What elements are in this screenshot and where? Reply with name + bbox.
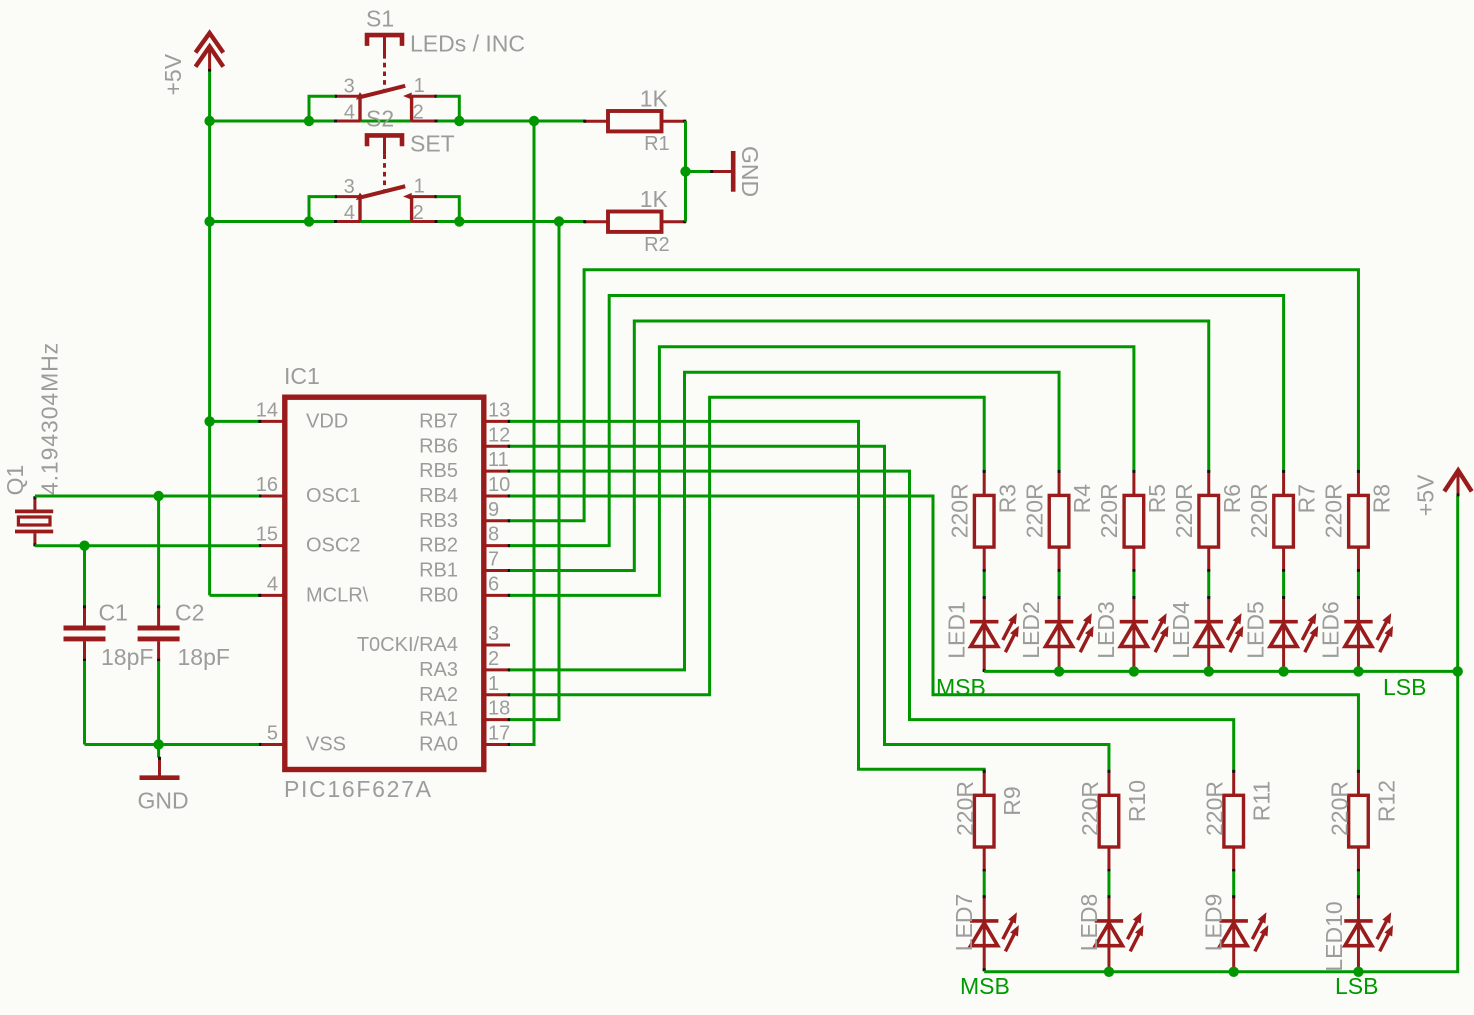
wire S2 pins 1-2 bracket xyxy=(437,197,460,222)
IC1 pin 7 RB1 lead xyxy=(484,569,510,572)
resistor R2 1K xyxy=(583,212,686,232)
wire net RA3 to R4 xyxy=(510,372,1059,670)
svg-text:2: 2 xyxy=(488,648,499,670)
junction bottom LED bus / x=1233.7 xyxy=(1229,967,1239,977)
svg-text:3: 3 xyxy=(488,623,499,645)
S2 pin 1 lead xyxy=(412,195,437,198)
wire S1 pins 3-4 bracket xyxy=(309,96,335,121)
LED LED8 xyxy=(1095,895,1144,971)
IC1 pin 1 RA2 lead xyxy=(484,693,510,696)
LED LED3 xyxy=(1120,596,1169,672)
S1 pin 1 lead xyxy=(412,95,437,98)
switch S2 (SET) xyxy=(334,135,438,223)
S1 pin 4 lead xyxy=(335,120,360,123)
wire net RA2 to R3 xyxy=(510,397,984,694)
IC1 pin 13 RB7 lead xyxy=(484,420,510,423)
wire R9 to LED7 xyxy=(983,871,986,896)
resistor R4 220R xyxy=(1049,470,1069,572)
svg-text:RB5: RB5 xyxy=(419,460,458,482)
svg-text:4: 4 xyxy=(344,202,355,224)
svg-text:18: 18 xyxy=(488,698,510,720)
svg-text:OSC2: OSC2 xyxy=(306,535,360,557)
svg-text:2: 2 xyxy=(413,101,424,123)
resistor R8 220R xyxy=(1349,470,1369,572)
IC1 pin 2 RA3 lead xyxy=(484,668,510,671)
svg-text:MSB: MSB xyxy=(936,674,986,700)
svg-text:7: 7 xyxy=(488,549,499,571)
svg-text:LSB: LSB xyxy=(1335,973,1378,999)
wire R3 to LED1 xyxy=(983,572,986,597)
svg-text:18pF: 18pF xyxy=(178,644,230,670)
svg-text:R10: R10 xyxy=(1124,780,1150,822)
svg-text:4: 4 xyxy=(267,573,278,595)
capacitor C1 18pF xyxy=(64,605,106,661)
IC1 pin 10 RB4 lead xyxy=(484,494,510,497)
wire S1 net down to IC pin 17 RA0 xyxy=(510,121,534,745)
supply +5V (right) xyxy=(1444,470,1471,496)
svg-text:LED3: LED3 xyxy=(1093,601,1119,659)
wire R12 to LED10 xyxy=(1357,871,1360,896)
IC1 pin 5 VSS lead xyxy=(259,743,285,746)
svg-text:MCLR\: MCLR\ xyxy=(306,584,369,606)
svg-text:3: 3 xyxy=(344,76,355,98)
wire net RB6 to R10 xyxy=(510,446,1109,770)
svg-text:14: 14 xyxy=(256,399,278,421)
resistor R12 220R xyxy=(1349,770,1369,872)
svg-text:PIC16F627A: PIC16F627A xyxy=(284,776,433,802)
svg-text:LED6: LED6 xyxy=(1318,601,1344,659)
IC1 pin 15 OSC2 lead xyxy=(259,544,285,547)
switch S1 (LEDs / INC) xyxy=(334,35,438,122)
IC1 pin 3 T0CKI/RA4 lead xyxy=(484,644,510,647)
svg-text:LED8: LED8 xyxy=(1076,894,1102,952)
resistor R7 220R xyxy=(1274,470,1294,572)
capacitor C2 18pF xyxy=(138,605,180,661)
junction R1R2/GND stub xyxy=(680,166,690,176)
wire net RB7 to R9 xyxy=(510,421,984,770)
wire net RB5 to R11 xyxy=(510,471,1234,770)
wire net OSC1 (crystal to pin 16) xyxy=(35,495,259,498)
IC1 pin 9 RB3 lead xyxy=(484,519,510,522)
svg-text:RA0: RA0 xyxy=(419,733,458,755)
svg-text:4: 4 xyxy=(344,101,355,123)
wire OSC2 down to C1 xyxy=(83,546,86,606)
junction LED bus / x=1059.05 xyxy=(1054,666,1064,676)
wire R11 to LED9 xyxy=(1232,871,1235,896)
svg-text:GND: GND xyxy=(137,788,188,814)
wire net RB3 to R8 xyxy=(510,270,1358,521)
svg-text:13: 13 xyxy=(488,399,510,421)
svg-text:16: 16 xyxy=(256,474,278,496)
junction LED bus / x=1208.75 xyxy=(1204,666,1214,676)
svg-text:RB4: RB4 xyxy=(419,485,458,507)
wire S2 net down to IC pin 18 RA1 xyxy=(510,222,559,720)
svg-text:220R: 220R xyxy=(1096,483,1122,538)
wire top LED bus (MSB..LSB to +5V) xyxy=(984,496,1457,672)
junction S2 pin4 / row xyxy=(304,216,314,226)
wire +5V to IC pin 4 MCLR xyxy=(210,594,259,597)
junction GND row / GND symbol xyxy=(153,739,163,749)
wire OSC1 down to C2 xyxy=(157,496,160,606)
svg-text:9: 9 xyxy=(488,499,499,521)
junction LED bus / x=1283.6 xyxy=(1278,666,1288,676)
IC1 pin 11 RB5 lead xyxy=(484,470,510,473)
junction S2 row / drop to RA1 xyxy=(554,216,564,226)
junction +5V / VDD xyxy=(204,416,214,426)
svg-text:R3: R3 xyxy=(994,484,1020,513)
svg-text:3: 3 xyxy=(344,176,355,198)
IC1 pin 16 OSC1 lead xyxy=(259,494,285,497)
wire R8 to LED6 xyxy=(1357,572,1360,597)
svg-text:220R: 220R xyxy=(947,483,973,538)
junction S2 pin2 / row xyxy=(454,216,464,226)
svg-text:10: 10 xyxy=(488,474,510,496)
svg-text:R12: R12 xyxy=(1373,780,1399,822)
IC1 pin 12 RB6 lead xyxy=(484,445,510,448)
svg-text:R11: R11 xyxy=(1249,781,1275,822)
svg-text:18pF: 18pF xyxy=(101,644,153,670)
svg-text:12: 12 xyxy=(488,424,510,446)
wire +5V vertical from supply to MCLR row xyxy=(208,72,211,596)
IC U1 PIC16F627A (IC1) body xyxy=(285,397,484,769)
junction +5V / S2 row xyxy=(204,216,214,226)
svg-text:RB7: RB7 xyxy=(419,410,458,432)
resistor R5 220R xyxy=(1124,470,1144,572)
svg-text:R8: R8 xyxy=(1369,484,1395,513)
svg-text:T0CKI/RA4: T0CKI/RA4 xyxy=(357,634,458,656)
LED LED7 xyxy=(970,895,1019,971)
wire S2 pins 3-4 bracket xyxy=(309,197,335,222)
wire net S2-row (+5V to S2/R2) xyxy=(210,220,585,223)
svg-text:LED5: LED5 xyxy=(1243,601,1269,659)
svg-text:R2: R2 xyxy=(644,234,670,256)
svg-text:1: 1 xyxy=(414,75,425,97)
wire +5V to IC pin 14 VDD xyxy=(210,420,259,423)
svg-text:C2: C2 xyxy=(175,600,204,626)
svg-text:R5: R5 xyxy=(1144,484,1170,513)
S2 pin 2 lead xyxy=(412,220,437,223)
svg-text:Q1: Q1 xyxy=(2,465,28,496)
svg-text:+5V: +5V xyxy=(160,53,186,95)
wire S1 pins 1-2 bracket xyxy=(437,96,460,121)
svg-text:RA1: RA1 xyxy=(419,709,458,731)
wire down to GND symbol xyxy=(157,745,160,758)
svg-text:MSB: MSB xyxy=(960,973,1010,999)
svg-text:S2: S2 xyxy=(366,105,394,131)
wire R5 to LED3 xyxy=(1132,572,1135,597)
wire C1 to GND row xyxy=(83,661,86,745)
LED LED10 xyxy=(1344,895,1393,971)
svg-text:LED9: LED9 xyxy=(1201,894,1227,952)
IC1 pin 17 RA0 lead xyxy=(484,743,510,746)
svg-text:5: 5 xyxy=(267,722,278,744)
IC1 pin 6 RB0 lead xyxy=(484,594,510,597)
junction bottom LED bus / x=1108.95 xyxy=(1104,967,1114,977)
junction LED bus / x=1133.9 xyxy=(1129,666,1139,676)
svg-text:+5V: +5V xyxy=(1413,474,1439,516)
svg-text:RB1: RB1 xyxy=(419,560,458,582)
wire net RB2 to R7 xyxy=(510,296,1284,546)
svg-text:IC1: IC1 xyxy=(284,363,320,389)
svg-text:1: 1 xyxy=(488,673,499,695)
svg-text:R7: R7 xyxy=(1294,484,1320,513)
junction S1 pin4 / row xyxy=(304,116,314,126)
svg-text:220R: 220R xyxy=(1171,483,1197,538)
S2 pin 3 lead xyxy=(335,195,360,198)
svg-text:220R: 220R xyxy=(1326,781,1352,836)
svg-text:1: 1 xyxy=(414,176,425,198)
svg-text:RA3: RA3 xyxy=(419,659,458,681)
svg-text:VDD: VDD xyxy=(306,410,348,432)
junction S1 pin2 / row xyxy=(454,116,464,126)
wire net RB4 to R12 xyxy=(510,496,1358,771)
junction top LED bus / +5V riser xyxy=(1453,666,1463,676)
svg-text:220R: 220R xyxy=(1021,483,1047,538)
IC1 pin 14 VDD lead xyxy=(259,420,285,423)
LED LED4 xyxy=(1195,596,1244,672)
resistor R3 220R xyxy=(974,470,994,572)
svg-text:1K: 1K xyxy=(640,186,669,212)
S1 pin 2 lead xyxy=(412,120,437,123)
svg-text:LSB: LSB xyxy=(1383,674,1426,700)
wire net RB0 to R5 xyxy=(510,347,1134,596)
svg-text:4.194304MHz: 4.194304MHz xyxy=(37,342,63,495)
ground GND (bottom left) xyxy=(140,757,180,778)
IC1 pin 8 RB2 lead xyxy=(484,544,510,547)
ground GND (right of R1/R2) xyxy=(710,151,733,192)
supply +5V (top left) xyxy=(196,33,224,72)
svg-text:RB0: RB0 xyxy=(419,584,458,606)
crystal Q1 4.194304MHz xyxy=(15,496,53,546)
wire R10 to LED8 xyxy=(1107,871,1110,896)
svg-text:220R: 220R xyxy=(1077,781,1103,836)
svg-text:LEDs / INC: LEDs / INC xyxy=(410,31,525,57)
svg-text:LED2: LED2 xyxy=(1018,601,1044,659)
resistor R9 220R xyxy=(974,770,994,872)
svg-text:2: 2 xyxy=(413,202,424,224)
wire R6 to LED4 xyxy=(1207,572,1210,597)
junction OSC2/C1 xyxy=(79,541,89,551)
LED LED2 xyxy=(1045,596,1094,672)
wire C2 to GND row xyxy=(157,661,160,745)
junction LED bus / x=1358.45 xyxy=(1353,666,1363,676)
svg-text:R1: R1 xyxy=(644,133,670,155)
svg-text:LED10: LED10 xyxy=(1321,901,1347,971)
IC1 pin 4 MCLR\ lead xyxy=(259,594,285,597)
svg-text:17: 17 xyxy=(488,722,510,744)
LED LED5 xyxy=(1269,596,1318,672)
svg-text:220R: 220R xyxy=(1321,483,1347,538)
svg-text:1K: 1K xyxy=(640,86,669,112)
wire R7 to LED5 xyxy=(1282,572,1285,597)
svg-text:RB2: RB2 xyxy=(419,535,458,557)
svg-text:220R: 220R xyxy=(1246,483,1272,538)
resistor R6 220R xyxy=(1199,470,1219,572)
svg-text:VSS: VSS xyxy=(306,733,346,755)
svg-text:15: 15 xyxy=(256,524,278,546)
junction S1 row / drop to RA0 xyxy=(529,116,539,126)
S2 pin 4 lead xyxy=(335,220,360,223)
svg-text:SET: SET xyxy=(410,131,455,157)
svg-text:R4: R4 xyxy=(1069,484,1095,514)
IC1 pin 18 RA1 lead xyxy=(484,718,510,721)
wire to GND symbol (right) xyxy=(686,170,712,173)
LED LED9 xyxy=(1220,895,1269,971)
svg-text:LED4: LED4 xyxy=(1168,601,1194,659)
svg-text:RB3: RB3 xyxy=(419,510,458,532)
svg-text:R9: R9 xyxy=(999,786,1025,815)
wire net OSC2 (crystal to pin 15) xyxy=(35,544,259,547)
svg-text:6: 6 xyxy=(488,573,499,595)
svg-text:S1: S1 xyxy=(366,6,394,32)
svg-text:LED1: LED1 xyxy=(943,601,969,659)
svg-text:220R: 220R xyxy=(1202,781,1228,836)
wire bottom LED bus (MSB..LSB to +5V riser) xyxy=(984,671,1457,971)
svg-text:C1: C1 xyxy=(99,600,128,626)
junction OSC1/C2 xyxy=(153,491,163,501)
resistor R1 1K xyxy=(583,111,686,131)
junction bottom LED bus / x=1358.45 xyxy=(1353,967,1363,977)
svg-text:OSC1: OSC1 xyxy=(306,485,360,507)
wire GND row to IC pin 5 VSS xyxy=(85,743,260,746)
svg-text:11: 11 xyxy=(488,449,509,471)
svg-text:8: 8 xyxy=(488,524,499,546)
resistor R11 220R xyxy=(1224,770,1244,872)
resistor R10 220R xyxy=(1099,770,1119,872)
S1 pin 3 lead xyxy=(335,95,360,98)
wire net RB1 to R6 xyxy=(510,321,1209,571)
svg-text:220R: 220R xyxy=(952,781,978,836)
svg-text:RA2: RA2 xyxy=(419,684,458,706)
wire R1-R2 right join xyxy=(684,121,687,222)
wire R4 to LED2 xyxy=(1058,572,1061,597)
svg-text:LED7: LED7 xyxy=(951,894,977,952)
svg-text:GND: GND xyxy=(737,146,763,197)
svg-text:R6: R6 xyxy=(1219,484,1245,513)
LED LED1 xyxy=(970,596,1019,672)
junction +5V / S1 row xyxy=(204,116,214,126)
svg-text:RB6: RB6 xyxy=(419,435,458,457)
LED LED6 xyxy=(1344,596,1393,672)
wire net S1-row (+5V to S1/R1) xyxy=(210,120,585,123)
